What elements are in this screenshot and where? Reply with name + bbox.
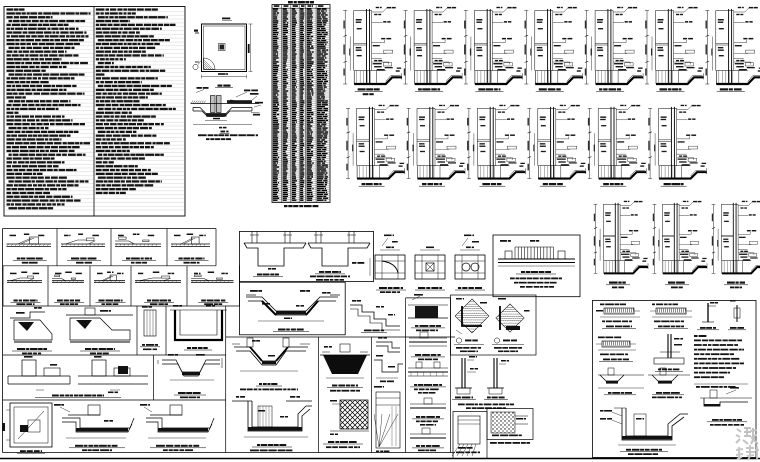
footing detail A3 (115, 243, 161, 245)
G2 caption (328, 441, 334, 443)
pile cap plan 3 dims above (462, 238, 468, 246)
retaining wall section WD-9 (407, 105, 466, 179)
section 1-1 dim (205, 120, 227, 122)
table header row (272, 7, 330, 9)
footing detail A1 (7, 243, 52, 245)
G1 caption (332, 385, 337, 387)
weep hole vertical detail C3 (144, 310, 156, 336)
sump channel detail C4 (175, 310, 222, 340)
waterproof fan detail H3 (376, 392, 400, 448)
form box K2 speckled (487, 409, 533, 440)
detail row A frame (3, 228, 217, 230)
retaining wall section WD-11 (527, 105, 586, 179)
comb captions (521, 271, 525, 273)
post detail J2 (493, 358, 495, 388)
plan dimension lines (202, 76, 247, 78)
footing detail B5 (191, 280, 234, 282)
section 1-1 column shafts (211, 96, 216, 113)
plan title (218, 85, 223, 87)
waterproof bar detail L2 (652, 304, 655, 306)
detail row C frame (3, 354, 226, 356)
corner detail 2 (496, 304, 524, 332)
stack detail I3 (408, 367, 448, 369)
posts caption (458, 404, 465, 406)
step footing detail N3 (700, 397, 752, 399)
crosshatch pit G2 (340, 400, 368, 429)
footing detail B3 (94, 280, 125, 282)
pit detail C2 with dark wedge (66, 314, 133, 316)
waterproof details group frame (593, 300, 757, 457)
detail row B frame (3, 305, 240, 307)
waterproof bar detail L1 (600, 304, 604, 306)
table body rows (272, 9, 330, 11)
details area outer frame (2, 229, 4, 453)
notes column divider (93, 7, 95, 217)
form box K1 (453, 412, 487, 459)
notes text left column (5, 10, 94, 12)
trench caption (278, 329, 286, 331)
pile rebar schedule table (272, 5, 330, 203)
watermark ji character (736, 428, 758, 444)
O1 caption (626, 449, 631, 451)
column footing detail D1b (92, 360, 106, 376)
pile cap plan 2 (415, 255, 445, 279)
beam profile right caption (319, 271, 324, 273)
table title (288, 1, 293, 3)
retaining wall section WD-13 (648, 105, 707, 179)
retaining wall section WD-12 (588, 105, 647, 179)
deep pit detail F2 (232, 400, 252, 402)
pile cap plan 1 (375, 255, 405, 279)
retaining wall section WD-14 (594, 201, 648, 274)
retaining wall section WD-1 (343, 7, 402, 84)
plan corner ramp quarter circle (204, 58, 216, 70)
retaining wall section WD-16 (712, 201, 760, 274)
wall top rebar comb detail box (493, 235, 580, 297)
pit detail C1 with dark wedge (10, 312, 45, 318)
beam profile details box (240, 231, 374, 281)
footing detail B2 (52, 280, 84, 282)
footing detail B4 (135, 280, 181, 282)
table caption (284, 205, 288, 207)
row D caption (52, 395, 59, 397)
section 1-1 caption (221, 131, 226, 133)
deep pit F2 caption (257, 444, 260, 446)
footing detail A2 (61, 243, 105, 245)
pits box frame (226, 336, 455, 338)
beam profile left caption (257, 274, 262, 276)
plan inner column hatched (219, 44, 226, 51)
section 1-1 basin outline (193, 108, 252, 114)
K2 caption (490, 442, 497, 444)
pile cap plan 3 (455, 255, 485, 279)
detail row D frame (3, 399, 226, 401)
stack detail I5 (410, 433, 446, 435)
stair detail H2 (374, 360, 403, 372)
stepped footing detail (350, 305, 400, 326)
post detail J1 (461, 358, 463, 388)
pile cap plan 1 dims above (382, 238, 388, 246)
stack detail I2 (409, 337, 447, 339)
retaining wall section WD-10 (467, 105, 526, 179)
comb detail (498, 258, 575, 260)
retaining wall section WD-5 (585, 7, 644, 84)
elevator pit black section G1 (322, 351, 330, 353)
stack detail I4 (410, 403, 446, 405)
footing detail A4 (171, 243, 210, 245)
retaining wall section WD-6 (645, 7, 704, 84)
small post detail L3 (707, 303, 709, 322)
sump plan detail E1 (10, 403, 52, 447)
plan section cut mark (195, 32, 199, 34)
plan grid bubble (193, 64, 198, 69)
retaining wall section WD-8 (346, 105, 405, 179)
retaining wall section WD-4 (524, 7, 583, 84)
sump pit detail D2 (162, 360, 220, 372)
retaining wall section WD-7 (705, 7, 760, 84)
section 1-1 hatching left (191, 101, 193, 104)
notes text right column (94, 10, 184, 12)
beam profile left (244, 242, 306, 244)
basin detail N1 (598, 374, 644, 376)
watermark zhuan character (736, 445, 759, 460)
sump pit F1 caption (259, 383, 262, 385)
small post detail L4 (736, 305, 738, 322)
sump pit detail F1 (232, 343, 240, 345)
stack detail I1 (408, 304, 448, 306)
trench section (246, 294, 256, 296)
deep sump detail O1 (614, 407, 626, 409)
post base detail M2 (667, 334, 669, 358)
column footing detail D1a (22, 360, 36, 376)
footing detail B1 (7, 280, 42, 282)
retaining wall section WD-15 (653, 201, 707, 274)
retaining wall section WD-2 (404, 7, 463, 84)
section 1-1 hatching right (227, 100, 231, 104)
beam profile right (308, 242, 370, 244)
sheet bottom border (0, 458, 760, 460)
waterproof bar detail M1 (598, 337, 605, 339)
trench detail box (240, 282, 346, 335)
corner detail 1 (455, 299, 489, 333)
notes list right group (694, 335, 698, 337)
retaining wall section WD-3 (464, 7, 523, 84)
section 1-1 leaders (236, 92, 247, 97)
basin detail N2 (648, 374, 690, 376)
general notes table frame (4, 7, 185, 217)
pit plan view (202, 24, 247, 72)
pit section detail E3 (150, 414, 182, 416)
pit section detail E2 (68, 414, 100, 416)
stair detail H1 (376, 342, 400, 348)
section 1-1 ground line (191, 103, 260, 105)
corner waterproof details box (451, 295, 537, 355)
